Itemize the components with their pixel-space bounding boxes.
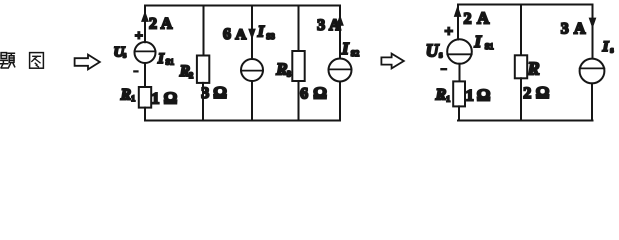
wire: C1 bottom rail [145,120,340,122]
value label "1 Ω" (circuit 2) [466,85,491,104]
svg-text:1: 1 [446,94,450,103]
svg-text:6: 6 [223,26,231,43]
svg-text:S1: S1 [166,58,174,67]
value label "2 Ω" (R) [523,83,549,102]
wire: C1 right branch upper segment [339,6,341,59]
current source Is2: circle with bar [329,59,352,82]
block arrow symbol (left) [75,55,100,70]
svg-text:R: R [275,60,287,79]
label R2 [179,63,194,80]
polarity label − (Us, circuit 1) [133,70,138,72]
svg-text:I: I [157,51,165,67]
value label "6 Ω" (R3) [300,83,327,102]
svg-text:U: U [426,40,440,60]
label "3 A" (circuit 1) [317,17,341,34]
wire: C2 middle branch upper segment [520,5,522,56]
label R1 (circuit 1) [120,86,136,103]
svg-text:Ω: Ω [536,83,550,102]
block arrow symbol (middle) [381,54,403,69]
svg-text:A: A [329,17,341,34]
svg-text:s: s [439,50,443,60]
svg-text:I: I [474,32,483,51]
svg-text:s: s [123,50,126,60]
current source Is1 (circuit 2): circle with bar [447,39,472,64]
polarity label − (Us, circuit 2) [440,68,447,70]
wire: C2 right branch upper segment [592,5,594,59]
wire: C1 branch 3 upper segment [251,6,253,60]
resistor R1 (circuit 1) [139,87,151,108]
svg-text:A: A [574,21,586,38]
wire: C2 right branch lower segment [591,83,593,120]
current direction arrowhead 2A (circuit 2, up) [454,7,461,17]
svg-text:s: s [610,45,613,55]
polarity label + (Us, circuit 1) [135,29,143,44]
svg-text:6: 6 [300,85,308,102]
svg-text:3: 3 [561,21,569,38]
figure caption character 图 [30,53,44,69]
svg-text:S3: S3 [266,32,274,41]
wire: C1 left branch lower segment [144,108,146,121]
current source Is1 (circuit 1): circle with bar [135,42,156,63]
label Is (circuit 2) [602,39,614,55]
wire: C1 branch 4 upper segment [298,6,300,52]
figure caption character 题 [0,53,14,68]
current source Is (circuit 2): circle with bar [580,59,605,84]
svg-text:S1: S1 [485,41,494,51]
svg-text:S2: S2 [351,49,359,58]
svg-text:I: I [602,39,610,55]
label "2 A" [149,16,173,33]
svg-text:R: R [120,86,131,103]
svg-text:Ω: Ω [477,85,491,104]
svg-text:Ω: Ω [313,83,327,102]
svg-text:Ω: Ω [164,88,178,107]
svg-text:2: 2 [189,71,193,80]
label "3 A" (circuit 2) [561,21,586,38]
label R1 (circuit 2) [435,86,451,103]
wire: C1 top rail [145,5,340,7]
wire: C1 branch 2 lower segment [202,83,204,121]
label Us (circuit 1) [114,44,127,60]
label Is3 [257,23,275,40]
resistor R (circuit 2) [515,55,527,78]
label "6 A" [223,26,246,43]
label Is1 (circuit 1) [157,51,174,67]
value label "1 Ω" (circuit 1) [152,88,178,107]
current direction arrowhead Is3 (down) [249,29,256,39]
wire: C2 left branch upper segment [457,5,459,40]
svg-text:I: I [257,23,265,40]
svg-text:1: 1 [131,94,135,103]
current source Is3: circle with bar [241,59,263,81]
wire: C1 branch 4 lower segment [298,81,300,121]
label Is1 (circuit 2) [474,32,494,51]
label R (circuit 2) [527,59,540,79]
label Is2 [341,39,359,58]
label Us (circuit 2) [426,40,443,60]
svg-text:1: 1 [466,87,474,104]
svg-text:2: 2 [523,85,531,102]
svg-text:A: A [235,27,246,43]
current direction arrowhead 2A (branch 1, up) [142,12,149,22]
svg-text:2: 2 [149,16,157,33]
resistor R1 (circuit 2) [453,81,465,106]
wire: C1 branch 3 lower segment [251,81,253,121]
svg-text:3: 3 [287,69,291,78]
svg-text:3: 3 [317,17,325,34]
svg-text:Ω: Ω [213,83,227,102]
svg-text:R: R [527,59,540,79]
wire: C2 top rail [458,4,593,6]
label "2 A" (circuit 2) [464,8,491,27]
resistor R2 [197,56,209,83]
wire: C1 left branch middle segment [144,63,146,87]
wire: C1 branch 2 upper segment [203,6,205,56]
value label "3 Ω" (R2) [201,83,227,102]
svg-text:A: A [161,16,173,33]
svg-text:1: 1 [152,90,160,107]
wire: C1 right branch lower segment [339,82,341,121]
svg-text:I: I [341,39,350,58]
svg-text:2: 2 [464,10,472,27]
svg-text:+: + [445,24,454,40]
polarity label + (Us, circuit 2) [445,24,454,40]
wire: C2 left branch lower segment [458,106,460,120]
wire: C1 left branch upper segment [144,6,146,43]
label R3 [275,60,291,79]
svg-text:A: A [477,8,490,27]
resistor R3 [292,51,304,81]
current direction arrowhead Is2 (up) [337,16,344,25]
svg-text:R: R [435,86,447,103]
wire: C2 middle branch lower segment [520,78,522,120]
wire: C2 bottom rail [458,120,593,122]
wire: C2 left branch middle segment [459,64,461,82]
current direction arrowhead Is (down, circuit 2) [589,18,596,28]
